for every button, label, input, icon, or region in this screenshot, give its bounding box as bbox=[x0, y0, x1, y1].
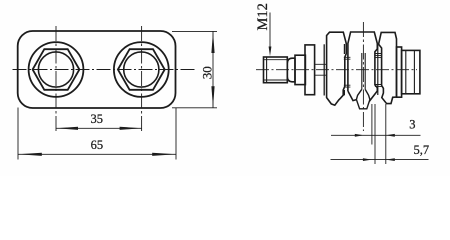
square neck bbox=[295, 55, 305, 84]
dimension 30 extension line top bbox=[172, 30, 217, 32]
first plate front sheet edge bbox=[323, 44, 325, 95]
extension lines below side view bbox=[371, 104, 373, 145]
dimension 65 extension line right bbox=[175, 108, 177, 160]
serrated plate 1 outline bbox=[327, 32, 347, 105]
dimension 5,7 line bbox=[331, 159, 429, 161]
dimension 5,7 right arrow bbox=[386, 158, 395, 161]
dimension 65 extension line left bbox=[17, 108, 19, 160]
plate outline (left view) bbox=[18, 31, 176, 108]
right nut (side view) bbox=[402, 50, 420, 93]
dimension 30 bottom arrow bbox=[211, 86, 214, 108]
svg-text:30: 30 bbox=[200, 66, 215, 79]
vertical centerline of clamp plates bbox=[362, 22, 364, 131]
thread minor diameter lines bbox=[264, 60, 288, 80]
serrated plate 2 outline bbox=[348, 32, 377, 101]
dimension 30 extension line bottom bbox=[172, 107, 217, 109]
svg-text:5,7: 5,7 bbox=[413, 143, 429, 157]
dimension 65 line bbox=[18, 153, 176, 155]
horizontal centerline through both bolts (dash-dot) bbox=[13, 69, 197, 71]
plate 2 bottom tooth bbox=[356, 89, 370, 109]
bolt 1 vertical centerline / extension line bbox=[55, 26, 57, 133]
threaded stud (side view) bbox=[264, 57, 288, 83]
dimension 35 right arrow bbox=[120, 127, 142, 130]
dimension 35 line bbox=[56, 127, 142, 129]
bolt 2 washer circle bbox=[114, 42, 169, 97]
svg-text:3: 3 bbox=[409, 118, 415, 132]
bolt 2 vertical centerline / extension line bbox=[141, 26, 143, 133]
bolt 1 hex nut bbox=[33, 49, 80, 90]
bolt 1 chamfer circle bbox=[38, 52, 73, 87]
right nut hex flat lines bbox=[406, 50, 415, 93]
bolt 2 hex nut bbox=[118, 49, 165, 90]
stud end chamfer line bbox=[266, 57, 268, 83]
svg-text:M12: M12 bbox=[255, 3, 271, 30]
bolt 2 chamfer circle bbox=[124, 52, 159, 87]
serration ticks gap 2-3 bottom bbox=[375, 85, 382, 87]
serration ticks gap 1-2 top bbox=[344, 57, 351, 59]
side view: horizontal centerline (dash-dot) bbox=[256, 69, 417, 71]
bolt collar dome bbox=[287, 58, 295, 82]
dimension 5,7 left arrow bbox=[363, 158, 372, 161]
M12 leader line bbox=[269, 13, 271, 51]
bolt 1 washer circle bbox=[29, 42, 84, 97]
dimension 35 left arrow bbox=[56, 127, 78, 130]
dimension 65 right arrow bbox=[152, 153, 176, 156]
dimension 65 left arrow bbox=[18, 153, 42, 156]
washer 2 bbox=[397, 47, 402, 97]
serration ticks gap 1-2 bottom bbox=[344, 85, 351, 87]
serration ticks gap 2-3 top bbox=[375, 54, 382, 58]
svg-text:35: 35 bbox=[91, 112, 104, 126]
washer 1 bbox=[305, 45, 315, 95]
dimension 30 top arrow bbox=[211, 31, 214, 53]
plate 2 right sheet edge bbox=[377, 44, 379, 95]
dimension 3 right arrow bbox=[386, 134, 395, 137]
dimension 3 line bbox=[331, 134, 421, 136]
shank lines between washer and first plate bbox=[315, 64, 327, 75]
svg-text:65: 65 bbox=[91, 138, 104, 152]
dimension 30 line bbox=[212, 31, 214, 108]
plate 1 right face inner edge bbox=[343, 44, 345, 95]
M12 leader arrow bbox=[269, 47, 272, 57]
serrated plate 3 outline bbox=[379, 32, 397, 103]
dimension 3 left arrow bbox=[355, 134, 364, 137]
plate 2 centre slot bbox=[362, 53, 365, 89]
